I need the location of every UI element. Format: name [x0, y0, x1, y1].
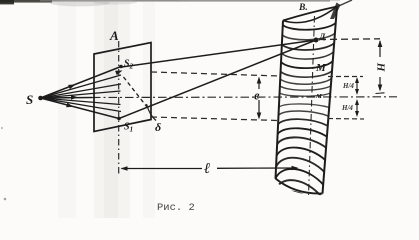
arrowhead on ray to S2 [68, 85, 75, 90]
drum centre dash-dot line [309, 16, 315, 196]
svg-text:A: A [109, 28, 119, 43]
dashed ray S2 to delta point [124, 77, 148, 107]
scan texture vertical streaks [58, 2, 155, 218]
plate A outline [94, 43, 151, 132]
svg-text:H: H [374, 62, 386, 72]
ray fan line 2 [41, 75, 122, 98]
scan speck left edge [1, 127, 3, 129]
svg-text:Рис. 2: Рис. 2 [157, 202, 195, 214]
optical axis solid segment at S [41, 97, 93, 100]
svg-text:H/4: H/4 [341, 104, 353, 112]
ray S1 to D [119, 40, 316, 119]
svg-text:M: M [315, 62, 327, 74]
dashed level line through S1 [151, 117, 279, 121]
point D on drum [314, 38, 319, 43]
drum left edge [276, 21, 284, 179]
ray S2 to D [122, 40, 317, 67]
optical axis dash-dot line [92, 96, 397, 99]
svg-text:В.: В. [298, 3, 308, 13]
svg-text:H/4: H/4 [342, 82, 354, 90]
drum top rim outer arc [283, 7, 337, 21]
ray fan line 5 [41, 98, 121, 105]
small dimension lower (H/4) [355, 99, 359, 117]
source point S [38, 96, 43, 101]
point S2 [119, 65, 123, 69]
small dimension upper (H/4) [355, 77, 359, 95]
drum bottom edge [276, 179, 323, 194]
arrowhead near S2 point [115, 71, 122, 76]
dimension line l horizontal [121, 166, 299, 171]
dimension H vertical line [376, 40, 385, 94]
svg-text:S: S [26, 92, 33, 107]
svg-text:δ: δ [155, 120, 161, 134]
svg-text:м: м [315, 90, 322, 100]
arrowhead on middle ray [71, 95, 78, 100]
point S1 [117, 117, 121, 121]
ray fan line 7 (S to S1) [41, 98, 120, 119]
ray fan line 6 [41, 98, 122, 112]
dashed level line through S2 [151, 72, 280, 76]
stray line top right corner [337, 0, 353, 7]
dimension line e [257, 77, 262, 120]
ray fan line 3 [41, 84, 122, 98]
svg-text:S2: S2 [124, 59, 134, 71]
plate A centre dash-dot line [118, 41, 120, 174]
scan artifact top edge streak [0, 0, 340, 6]
delta leader curve [147, 104, 157, 121]
small dashed reference line lower right [328, 118, 364, 121]
arrowhead on ray to S1 [66, 103, 73, 107]
interference fringes on drum [274, 23, 335, 210]
small dashed reference line upper right [328, 76, 363, 78]
svg-text:ℓ: ℓ [204, 161, 210, 177]
svg-text:e: e [254, 89, 260, 103]
ray fan line 4 [41, 91, 121, 98]
drum right edge [323, 7, 338, 194]
ray fan line 1 (S to S2) [41, 67, 122, 99]
dashed line from D to H dimension [319, 38, 380, 41]
drum top rim inner arc [283, 7, 337, 23]
scan speck bottom left [4, 198, 7, 201]
